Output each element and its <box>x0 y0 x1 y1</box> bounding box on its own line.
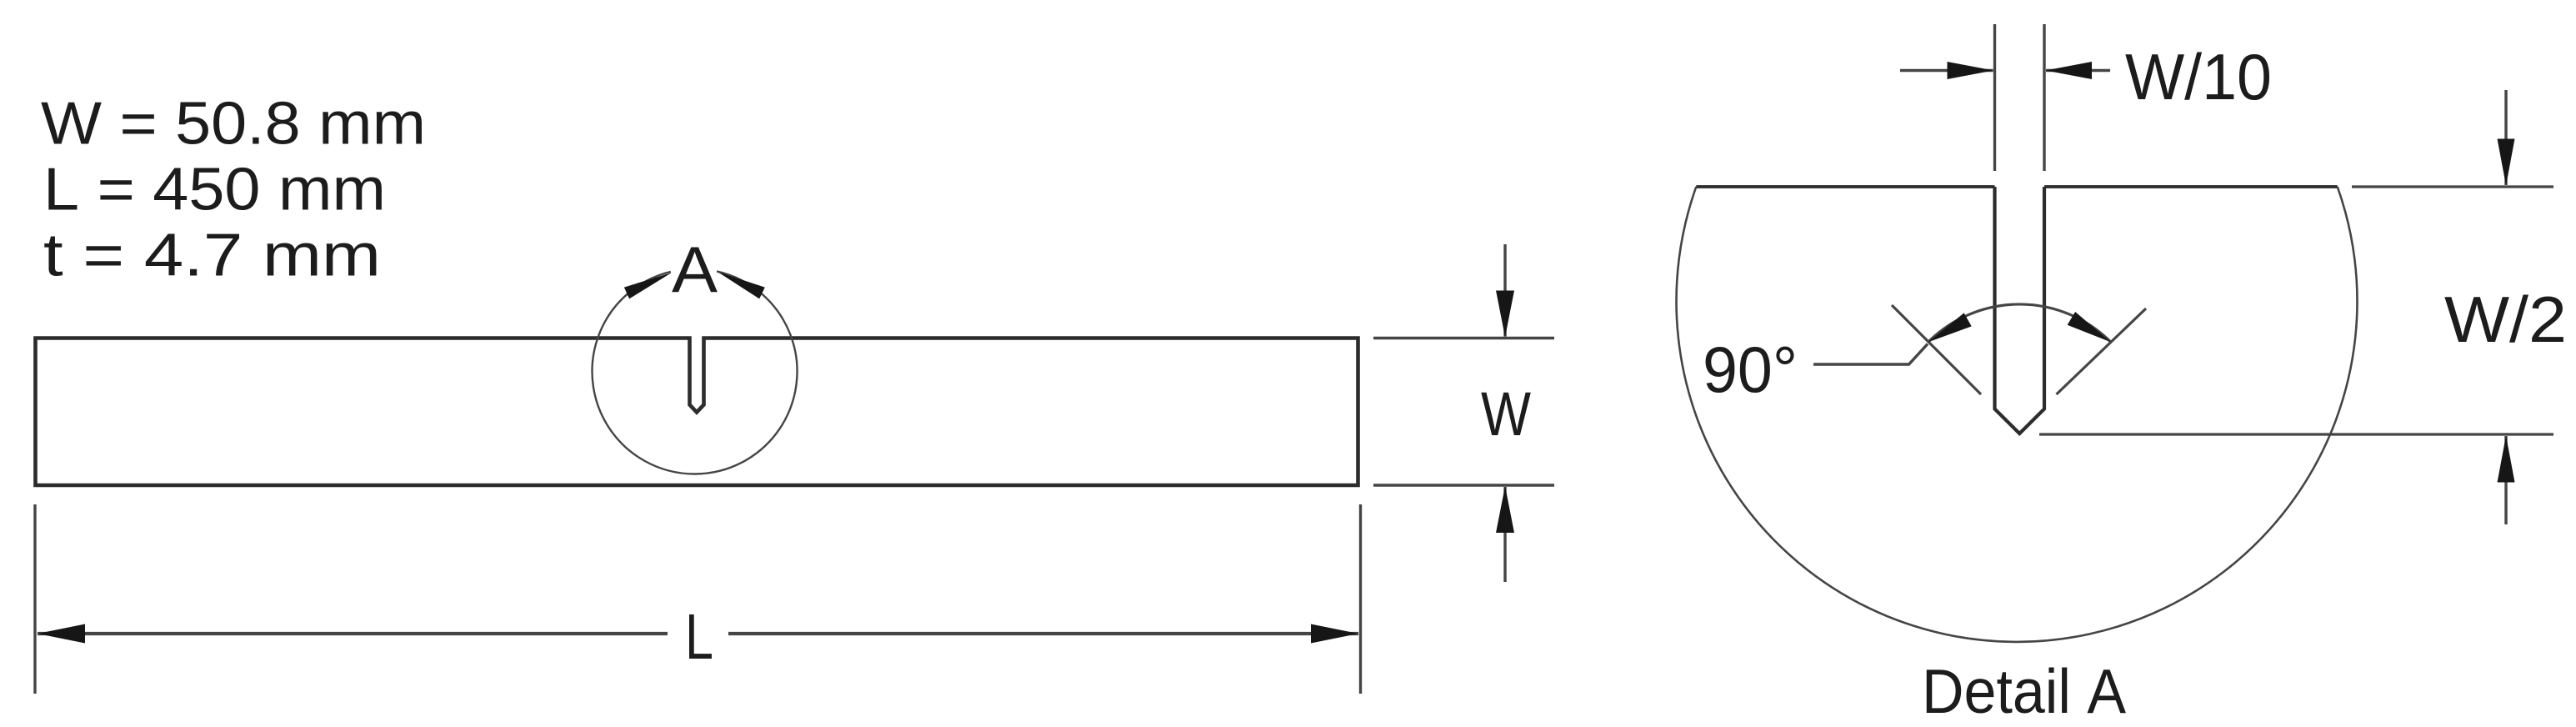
svg-text:W = 50.8 mm: W = 50.8 mm <box>41 91 426 158</box>
svg-text:A: A <box>672 233 718 306</box>
svg-text:W/10: W/10 <box>2125 40 2272 113</box>
specimen bar outline with notch slot <box>36 338 1358 486</box>
W dim arrow bottom <box>1503 487 1506 582</box>
detail circle arrowhead right <box>718 272 765 298</box>
L extension line left <box>33 504 36 694</box>
detail circle arrowhead left <box>624 273 672 298</box>
W/2 dim arrow bottom <box>2504 436 2507 524</box>
svg-text:W/2: W/2 <box>2444 283 2567 356</box>
W extension line top <box>1373 337 1554 339</box>
W/10 dim arrow right <box>2046 69 2110 72</box>
L dim arrowhead right <box>1311 624 1358 644</box>
L dimension line right segment <box>728 632 1358 635</box>
detail A boundary circle <box>1677 187 2358 642</box>
W/2 extension line top <box>2352 185 2553 188</box>
arc arrowhead right <box>2068 312 2111 342</box>
svg-text:t = 4.7 mm: t = 4.7 mm <box>43 223 381 289</box>
svg-text:W: W <box>1481 379 1531 449</box>
svg-text:Detail A: Detail A <box>1922 656 2126 726</box>
W/2 dim arrow top <box>2504 90 2507 185</box>
arc arrowhead left <box>1928 313 1972 342</box>
W dim arrow top <box>1503 244 1506 337</box>
detail notch slot with V bottom <box>1995 187 2045 434</box>
detail boundary circle A <box>593 271 798 474</box>
L dimension line left segment <box>38 632 668 635</box>
svg-text:L: L <box>685 601 713 673</box>
slot extension line right <box>2043 24 2045 171</box>
W/2 extension line bottom <box>2039 433 2553 435</box>
detail top edge left of slot <box>1696 185 1994 188</box>
W/10 dim arrow left <box>1900 69 1993 72</box>
90 deg leader line <box>1813 344 1928 365</box>
notch flank extension right <box>2057 308 2147 394</box>
notch flank extension left <box>1892 305 1981 394</box>
svg-text:L = 450 mm: L = 450 mm <box>43 157 386 223</box>
slot extension line left <box>1993 24 1996 171</box>
detail top edge right of slot <box>2044 185 2338 188</box>
90 deg dimension arc <box>1928 304 2111 342</box>
L extension line right <box>1359 504 1362 694</box>
W extension line bottom <box>1373 484 1554 486</box>
svg-text:90°: 90° <box>1703 333 1798 406</box>
L dim arrowhead left <box>38 624 85 644</box>
